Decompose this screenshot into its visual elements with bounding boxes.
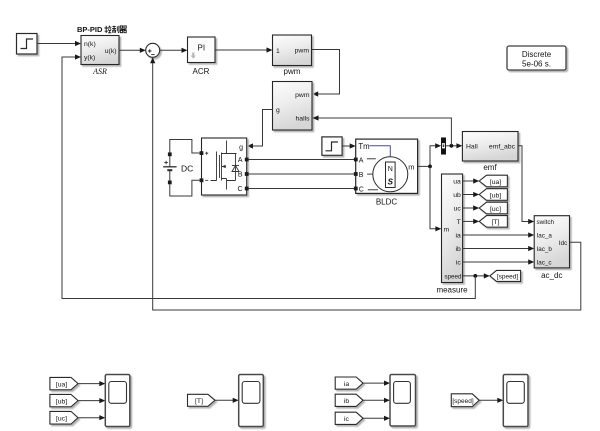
wire Tm Step to BLDC Tm	[342, 143, 356, 148]
svg-text:[speed]: [speed]	[452, 398, 474, 405]
selector block	[441, 138, 445, 155]
wire DC plus to converter	[170, 140, 200, 154]
block ACR (PI)	[188, 37, 216, 63]
sum junction	[146, 43, 160, 57]
wire m branch down to measure m input	[430, 166, 441, 231]
svg-text:ac_dc: ac_dc	[541, 271, 562, 280]
svg-text:5e-06 s.: 5e-06 s.	[522, 60, 551, 69]
svg-text:[ub]: [ub]	[56, 398, 67, 405]
goto tag [uc]	[479, 202, 507, 214]
svg-text:Iac_b: Iac_b	[537, 246, 553, 253]
from tag ia	[335, 377, 363, 389]
subsystem gates (pwm/halls to g)	[273, 82, 313, 131]
wire measure T to goto	[463, 219, 480, 224]
svg-text:BP-PID: BP-PID	[77, 25, 103, 34]
annotation BP-PID controller (Chinese glyphs drawn)	[77, 25, 127, 34]
wire Idc feedback to sum minus	[150, 57, 581, 310]
wire DC minus to converter	[170, 180, 200, 196]
scope2 torque	[239, 375, 264, 427]
powergui Discrete	[507, 46, 566, 70]
wire measure ub to goto	[463, 192, 480, 197]
from tag [ua]	[50, 377, 78, 389]
step source Step1	[17, 34, 38, 55]
svg-text:ia: ia	[344, 381, 350, 388]
svg-text:PI: PI	[198, 44, 206, 53]
logging badge arrow in PI	[191, 53, 196, 59]
svg-text:[T]: [T]	[492, 219, 500, 226]
goto tag [speed]	[490, 270, 521, 281]
subsystem ac_dc	[534, 216, 569, 268]
wire [ua] to scope1	[78, 381, 105, 386]
mosfet arrow	[222, 165, 226, 168]
svg-text:DC: DC	[181, 164, 193, 174]
scope1 voltages	[105, 375, 130, 427]
svg-text:[T]: [T]	[195, 398, 203, 405]
converter universal bridge	[202, 138, 247, 195]
wire measure ic to ac_dc	[463, 259, 535, 264]
svg-text:ua: ua	[453, 178, 461, 185]
svg-text:u(k): u(k)	[105, 48, 117, 55]
wire emf_abc to ac_dc switch	[518, 146, 534, 224]
svg-text:[speed]: [speed]	[497, 274, 519, 281]
svg-text:Hall: Hall	[466, 144, 478, 151]
from tag [ub]	[50, 394, 78, 406]
wire ic to scope3	[363, 416, 390, 421]
from tag ic	[335, 412, 363, 424]
svg-text:T: T	[457, 219, 461, 226]
svg-text:y(k): y(k)	[84, 55, 95, 62]
wire [speed] to scope4	[479, 398, 503, 403]
svg-text:g: g	[276, 107, 280, 114]
wire [ub] to scope1	[78, 398, 105, 403]
scope3 currents	[390, 375, 416, 427]
wire pwm to gates subsystem	[312, 50, 340, 97]
wire selector to emf Hall with junction	[446, 143, 463, 148]
svg-text:ASR: ASR	[92, 67, 107, 76]
wire converter B to BLDC B	[249, 173, 356, 175]
goto tag [ua]	[479, 175, 507, 187]
svg-text:A: A	[238, 157, 243, 164]
subsystem emf	[462, 132, 518, 162]
wire converter A to BLDC A	[249, 159, 356, 161]
wire [T] to scope2	[215, 398, 239, 403]
svg-text:pwm: pwm	[284, 67, 301, 76]
svg-text:ia: ia	[456, 232, 462, 239]
wire BLDC m to junction and selector	[418, 143, 442, 168]
wire ib to scope3	[363, 398, 390, 403]
svg-text:emf: emf	[483, 163, 497, 172]
svg-text:C: C	[359, 187, 364, 194]
svg-text:g: g	[239, 145, 243, 152]
wire sum to ACR	[160, 48, 188, 53]
svg-text:Iac_c: Iac_c	[537, 260, 552, 267]
svg-text:[ua]: [ua]	[490, 179, 501, 186]
from tag [T]	[188, 394, 216, 406]
svg-text:pwm: pwm	[295, 47, 310, 54]
svg-text:pwm: pwm	[295, 92, 310, 99]
from tag ib	[335, 394, 363, 406]
svg-text:measure: measure	[436, 286, 468, 295]
subsystem pwm	[273, 35, 312, 66]
svg-text:Iac_a: Iac_a	[537, 233, 553, 240]
svg-text:ub: ub	[453, 192, 461, 199]
goto tag [T]	[479, 216, 507, 228]
wire ACR to pwm	[215, 47, 273, 52]
wire hall branch to gates halls input	[313, 115, 452, 145]
subsystem measure	[442, 174, 463, 283]
goto tag [ub]	[479, 189, 507, 201]
step source Tm Step	[322, 137, 342, 155]
svg-text:ACR: ACR	[193, 67, 210, 76]
block BLDC motor	[356, 139, 418, 193]
converter mosfet-diode icon	[211, 141, 240, 190]
svg-text:BLDC: BLDC	[376, 198, 398, 207]
wire [uc] to scope1	[78, 415, 105, 420]
subsystem ASR (BP-PID)	[81, 36, 119, 65]
svg-text:emf_abc: emf_abc	[489, 144, 516, 151]
svg-text:ic: ic	[456, 260, 462, 267]
svg-text:speed: speed	[444, 273, 462, 280]
from tag [uc]	[50, 411, 78, 424]
svg-text:S: S	[388, 178, 394, 187]
svg-text:uc: uc	[454, 205, 462, 212]
wire measure ib to ac_dc	[463, 246, 535, 251]
wire converter C to BLDC C	[249, 188, 356, 190]
wire measure uc to goto	[463, 205, 480, 210]
from tag [speed]	[451, 394, 479, 407]
svg-text:[uc]: [uc]	[490, 206, 501, 213]
svg-text:[ua]: [ua]	[56, 381, 67, 388]
svg-text:C: C	[237, 186, 242, 193]
svg-text:Tm: Tm	[358, 142, 369, 151]
wire gates g to converter g	[247, 110, 273, 149]
svg-text:m: m	[444, 226, 450, 233]
svg-text:Discrete: Discrete	[522, 50, 552, 59]
svg-text:A: A	[359, 157, 364, 164]
wire ia to scope3	[363, 381, 390, 386]
svg-text:n(k): n(k)	[84, 41, 96, 48]
scope4 speed	[503, 375, 528, 427]
svg-text:ib: ib	[344, 398, 350, 405]
svg-text:[uc]: [uc]	[56, 415, 67, 422]
svg-text:N: N	[388, 166, 393, 173]
wire ASR u(k) to sum	[119, 48, 146, 53]
DC source battery	[163, 152, 193, 184]
svg-text:B: B	[238, 172, 243, 179]
svg-text:ib: ib	[456, 246, 462, 253]
svg-text:Idc: Idc	[559, 240, 567, 247]
wire speed feedback to ASR y(k)	[62, 54, 475, 298]
svg-text:ic: ic	[344, 416, 350, 423]
svg-text:switch: switch	[537, 219, 555, 226]
wire Step1 to ASR n(k)	[37, 41, 81, 46]
svg-text:halls: halls	[296, 116, 311, 123]
wire measure ia to ac_dc	[463, 232, 535, 237]
svg-text:B: B	[359, 172, 364, 179]
svg-text:1: 1	[276, 48, 280, 55]
wire measure speed to goto with junction	[463, 273, 490, 278]
wire measure ua to goto	[463, 178, 480, 183]
svg-text:[ub]: [ub]	[490, 192, 501, 199]
svg-text:m: m	[408, 163, 414, 172]
